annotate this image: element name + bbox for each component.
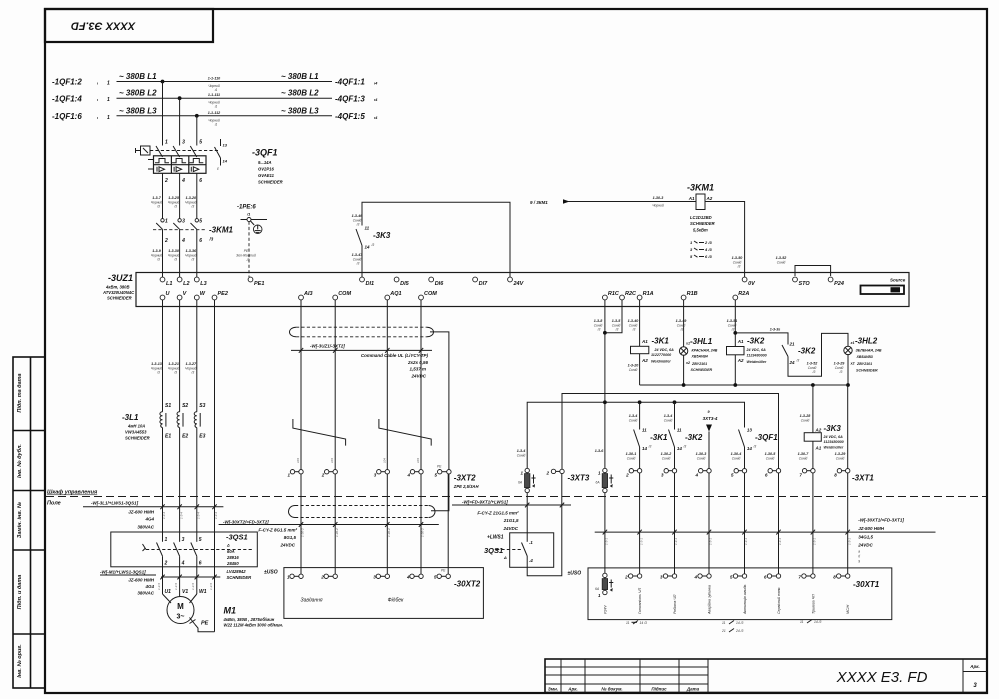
- wire 24V control rail: [362, 202, 510, 277]
- svg-text:-4QF1:5: -4QF1:5: [335, 112, 365, 121]
- frequency drive 3UZ1 enclosure: [102, 273, 909, 307]
- svg-text:28450: 28450: [226, 561, 239, 566]
- svg-text:A2: A2: [737, 358, 744, 363]
- 30XT1 terminal 6 function label: [777, 587, 781, 614]
- svg-text:1-3-1: 1-3-1: [709, 538, 713, 545]
- svg-text:б: б: [858, 555, 860, 559]
- svg-text:/3: /3: [615, 327, 619, 331]
- svg-text:6: 6: [199, 238, 202, 244]
- wire 3HL2 to rail: [847, 355, 849, 385]
- wire 3K1 coil A2 to rail: [628, 354, 640, 385]
- svg-text:1-3-1: 1-3-1: [813, 538, 817, 545]
- wires AI3 COM AQ1 COM: [301, 300, 421, 469]
- motor PE lead: [190, 618, 215, 632]
- reference arrow 9 / 3KM1: [530, 199, 570, 205]
- drive terminal R2A: [733, 291, 749, 300]
- svg-text:Синій: Синій: [799, 456, 808, 460]
- svg-text:A2: A2: [706, 196, 713, 201]
- svg-text:3: 3: [182, 219, 185, 225]
- label -3XT3: [568, 474, 590, 483]
- svg-text:SCHNEIDER: SCHNEIDER: [691, 368, 713, 372]
- svg-text:1123480000: 1123480000: [747, 354, 768, 358]
- svg-text:1-3-1: 1-3-1: [605, 538, 609, 545]
- svg-text:14: 14: [223, 159, 228, 164]
- svg-text:/3: /3: [173, 371, 177, 375]
- terminal 3XT1-3: [661, 469, 677, 478]
- svg-text:Шкаф управления: Шкаф управления: [47, 489, 98, 496]
- drive terminal DI6: [429, 277, 444, 287]
- wire L3 drop to breaker: [196, 116, 198, 146]
- contactor 3KM1 main poles: [156, 219, 202, 245]
- terminal box -30XT1: [568, 568, 892, 620]
- svg-text:1-3-3г: 1-3-3г: [770, 328, 781, 332]
- svg-text:SCHNEIDER: SCHNEIDER: [125, 436, 150, 441]
- svg-text:DI5: DI5: [400, 281, 410, 287]
- wire 3KM1 coil A2 to 0V: [705, 202, 745, 278]
- svg-text:34G1,5: 34G1,5: [858, 535, 873, 540]
- wire rail to 3K3 coil: [800, 385, 813, 433]
- wire labels 1-3-13 / 1-3-21 / 1-3-27: [151, 362, 197, 375]
- svg-text:S2: S2: [182, 403, 188, 409]
- svg-text:11: 11: [677, 428, 682, 433]
- shielded pair screen (capsule) top: [290, 327, 434, 337]
- motor M1: [167, 597, 194, 624]
- svg-text:XB5AVB4: XB5AVB4: [691, 355, 708, 359]
- svg-text:M: M: [177, 602, 184, 611]
- terminal 3XT3-2: [546, 469, 565, 475]
- svg-text:Активація швидк.: Активація швидк.: [743, 584, 747, 615]
- svg-text:-3KM1: -3KM1: [687, 183, 714, 193]
- svg-text:R1B: R1B: [687, 291, 698, 297]
- svg-text:24 VDC, 6А: 24 VDC, 6А: [823, 435, 844, 439]
- svg-text:Синій: Синій: [662, 456, 671, 460]
- svg-text:/3: /3: [246, 258, 250, 262]
- svg-text:Дата: Дата: [686, 687, 700, 692]
- node +24 rail at 3K1: [638, 400, 642, 404]
- drive terminal DI5: [394, 277, 409, 287]
- svg-text:1-3-5: 1-3-5: [191, 583, 195, 590]
- svg-text:1-30-2: 1-30-2: [335, 528, 339, 537]
- svg-text:-W[-3L1/+LWS1-3QS1]: -W[-3L1/+LWS1-3QS1]: [91, 501, 139, 506]
- drive terminal L2: [177, 277, 189, 287]
- svg-text:2x2x 0,56: 2x2x 0,56: [407, 360, 429, 365]
- svg-text:/3: /3: [190, 205, 194, 209]
- svg-text:24VDC: 24VDC: [502, 526, 518, 531]
- svg-text:-3K3: -3K3: [824, 424, 842, 433]
- wires 3XT2 to 30XT2: [301, 474, 421, 574]
- wires 3QF1 to 3KM1: [163, 174, 197, 221]
- svg-text:14 /3: 14 /3: [640, 621, 647, 625]
- svg-text:24VDC: 24VDC: [857, 543, 873, 548]
- breaker 3QF1 mechanical linkage (dashed): [150, 150, 218, 152]
- svg-text:9...14A: 9...14A: [258, 160, 272, 165]
- svg-text:-3QF1: -3QF1: [755, 433, 778, 442]
- svg-text:Тривога ЧП: Тривога ЧП: [811, 594, 815, 614]
- svg-text:Синій: Синій: [629, 368, 638, 372]
- svg-text:/3: /3: [190, 371, 194, 375]
- svg-text:1-3-1: 1-3-1: [639, 538, 643, 545]
- twisted pair symbol pair 2: [379, 419, 431, 446]
- svg-text:5: 5: [199, 140, 202, 146]
- aux switch box +LWS1 3QS1: [484, 533, 554, 568]
- svg-text:24 VDC, 6А: 24 VDC, 6А: [746, 348, 767, 352]
- 30XT1 terminal 2 function label: [638, 588, 642, 614]
- wire R2C jumper to R1C: [606, 300, 622, 333]
- indicator lamp 3HL2: [844, 337, 882, 373]
- svg-text:AI3: AI3: [303, 291, 313, 297]
- svg-text:21: 21: [789, 342, 796, 347]
- 30XT1 terminal 7 function label: [811, 594, 815, 614]
- relay coil 3K1: [631, 337, 675, 364]
- svg-text:/3: /3: [648, 445, 652, 449]
- svg-text:JZ-600 HMH: JZ-600 HMH: [128, 510, 155, 515]
- svg-text:3: 3: [182, 140, 185, 146]
- svg-text:.4: .4: [529, 558, 533, 563]
- svg-text:GVAE11: GVAE11: [258, 173, 275, 178]
- svg-text:W1: W1: [199, 589, 207, 595]
- svg-text:S1: S1: [165, 403, 171, 409]
- svg-text:/3: /3: [156, 205, 160, 209]
- svg-text:1-3-4: 1-3-4: [197, 512, 201, 519]
- screen capsule bottom: [289, 506, 436, 518]
- svg-text:11: 11: [800, 620, 804, 624]
- svg-text:/3: /3: [731, 327, 735, 331]
- wire LWS1 switch loop to 3XT3-2: [527, 474, 562, 576]
- svg-text:A1: A1: [688, 196, 695, 201]
- svg-text:-3QS1: -3QS1: [226, 533, 248, 542]
- svg-text:4: 4: [695, 473, 699, 478]
- terminal 30XT1-3: [660, 574, 677, 580]
- svg-text:E2: E2: [182, 434, 188, 440]
- svg-text:XXXX Э3.FD: XXXX Э3.FD: [71, 20, 136, 32]
- svg-text:104: 104: [330, 458, 334, 463]
- svg-text:2: 2: [546, 471, 550, 476]
- svg-text:4 /3: 4 /3: [704, 247, 712, 252]
- svg-text:21G1,5: 21G1,5: [503, 518, 519, 523]
- svg-text:1: 1: [165, 219, 168, 225]
- svg-text:2: 2: [164, 561, 168, 567]
- terminal 3XT1-8: [834, 469, 850, 478]
- earth terminal -1PE:6: [237, 205, 267, 234]
- label -3KM1: [209, 226, 234, 242]
- svg-text:Завдання: Завдання: [301, 598, 323, 604]
- svg-text:x2: x2: [850, 362, 855, 366]
- switch 3QS1 handle and linkage: [143, 544, 253, 551]
- svg-text:-4QF1:1: -4QF1:1: [335, 78, 365, 87]
- svg-text:ι1: ι1: [215, 88, 218, 92]
- svg-text:14 /3: 14 /3: [814, 620, 821, 624]
- svg-text:AQ1: AQ1: [389, 291, 401, 297]
- svg-text:1-1-112: 1-1-112: [208, 111, 221, 115]
- svg-text:24 VDC, 6А: 24 VDC, 6А: [654, 348, 675, 352]
- svg-text:Фідбек: Фідбек: [388, 598, 404, 604]
- contactor coil 3KM1 A1-A2: [687, 183, 715, 233]
- svg-text:-3K2: -3K2: [798, 347, 816, 356]
- svg-text:1-3-1: 1-3-1: [674, 538, 678, 545]
- terminal 3XT1-7: [799, 469, 815, 478]
- wires 3QS1 to motor: [163, 567, 207, 603]
- svg-text:-1QF1:4: -1QF1:4: [52, 94, 82, 103]
- drive terminal U: [160, 291, 170, 300]
- svg-text:Інв. № дубл.: Інв. № дубл.: [16, 444, 23, 478]
- svg-text:SCHNEIDER: SCHNEIDER: [856, 368, 878, 372]
- svg-text:-1QF1:6: -1QF1:6: [52, 112, 82, 121]
- node rail-HL1: [682, 383, 686, 387]
- contact 3K3 11-14: [352, 214, 375, 250]
- svg-text:Змн.: Змн.: [548, 687, 558, 692]
- svg-text:.1: .1: [529, 540, 533, 545]
- svg-text:1-1-111: 1-1-111: [208, 93, 220, 97]
- svg-text:/3: /3: [753, 445, 757, 449]
- svg-text:STO: STO: [799, 281, 811, 287]
- svg-text:28916: 28916: [226, 555, 239, 560]
- terminal 30XT1-2: [624, 574, 642, 580]
- svg-text:U1: U1: [165, 589, 172, 595]
- screen drain from 3XT2 PE (bottom): [431, 474, 449, 511]
- svg-text:W: W: [200, 291, 206, 297]
- svg-text:Weidmüller: Weidmüller: [824, 445, 844, 449]
- svg-text:/3: /3: [156, 258, 160, 262]
- svg-text:Синій: Синій: [766, 456, 775, 460]
- svg-text:1-3-4: 1-3-4: [162, 512, 166, 519]
- wire jumper STO-P24: [776, 256, 831, 276]
- svg-text:x1: x1: [850, 341, 855, 345]
- svg-text:а: а: [858, 550, 860, 554]
- svg-text:Weidmüller: Weidmüller: [747, 360, 767, 364]
- svg-text:SCHNEIDER: SCHNEIDER: [227, 575, 252, 580]
- svg-text:E1: E1: [165, 434, 171, 440]
- 30XT1 terminal 5 function label: [743, 584, 747, 615]
- svg-text:Арк.: Арк.: [969, 664, 980, 669]
- svg-text:5,5кВт: 5,5кВт: [693, 228, 708, 233]
- drive terminal R2C: [620, 291, 637, 300]
- svg-text:/3: /3: [680, 327, 684, 331]
- svg-text:-W[-M1/+LWS1-3QS1]: -W[-M1/+LWS1-3QS1]: [100, 570, 146, 575]
- svg-text:JZ-600 HMH: JZ-600 HMH: [128, 578, 155, 583]
- svg-text:1122770000: 1122770000: [651, 353, 672, 357]
- svg-text:380VAC: 380VAC: [137, 525, 154, 530]
- svg-text:-3HL1: -3HL1: [690, 337, 713, 346]
- wire 3QF1 contact to 3XT1-5: [731, 447, 745, 469]
- svg-text:11: 11: [642, 428, 647, 433]
- svg-text:-3KM1: -3KM1: [209, 226, 234, 235]
- svg-text:Підпис: Підпис: [651, 687, 667, 692]
- svg-text:1-1-110: 1-1-110: [208, 77, 221, 81]
- svg-text:Синій: Синій: [777, 260, 786, 264]
- svg-text:/3: /3: [156, 371, 160, 375]
- wires U V W below drive: [163, 300, 197, 406]
- svg-text:W22 112M 4кВт 3000 об/мин.: W22 112M 4кВт 3000 об/мин.: [224, 623, 284, 628]
- svg-text:3XT3-4: 3XT3-4: [703, 416, 718, 421]
- wire arrow to 3XT1-4: [696, 432, 709, 469]
- cable W[-30XT1/=FD-3XT1]: [595, 518, 936, 564]
- svg-text:Поле: Поле: [47, 501, 61, 507]
- svg-text:Синій: Синій: [836, 456, 845, 460]
- cable W[-30XT2/=FD-3XT2]: [219, 519, 439, 547]
- terminal 3XT3-1 with fuse: [517, 449, 536, 493]
- wire 3XT3-1 to LWS1 switch: [526, 493, 528, 533]
- svg-text:PE: PE: [201, 621, 209, 627]
- svg-text:JZ-500 HMH: JZ-500 HMH: [858, 526, 885, 531]
- svg-text:11: 11: [626, 621, 630, 625]
- node +24 rail at 3K2: [673, 400, 677, 404]
- drive terminal DI7: [473, 277, 488, 287]
- svg-text:/3: /3: [173, 205, 177, 209]
- wire labels 1-3-9 / 1-3-30 / 1-3-36: [151, 249, 197, 262]
- svg-text:2 /3: 2 /3: [704, 240, 712, 245]
- indicator lamp 3HL1: [679, 337, 717, 372]
- wire 3K3 coil to 3XT1-7: [798, 441, 813, 468]
- svg-text:1-3-6: 1-3-6: [595, 449, 605, 453]
- svg-text:2: 2: [624, 575, 628, 580]
- node rail-3K2: [733, 383, 737, 387]
- svg-text:SCHNEIDER: SCHNEIDER: [258, 180, 283, 185]
- svg-text:1-3-5: 1-3-5: [157, 583, 161, 590]
- svg-text:/3: /3: [356, 222, 360, 226]
- svg-text:Синій: Синій: [801, 418, 810, 422]
- wire 3K3 to DI1: [352, 246, 364, 278]
- svg-text:1-3-1: 1-3-1: [778, 538, 782, 545]
- node R1C-R2C junction: [603, 331, 607, 335]
- reference arrow 3XT3-4: [703, 410, 718, 432]
- sidebar label Підп. и дата: [17, 575, 23, 610]
- svg-text:F-CY-Z 21G1.5 mm²: F-CY-Z 21G1.5 mm²: [477, 510, 519, 515]
- svg-text:-3XT1: -3XT1: [852, 474, 874, 483]
- svg-text:/3: /3: [371, 243, 375, 247]
- svg-text:104: 104: [416, 458, 420, 463]
- drive terminal L1: [160, 277, 172, 287]
- svg-text:4: 4: [181, 178, 185, 184]
- wire 3HL2 to 3XT1-8: [835, 385, 848, 469]
- svg-text:x2: x2: [685, 361, 690, 365]
- cable W[-3L1/+LWS1-3QS1]: [83, 501, 223, 530]
- svg-text:24: 24: [789, 360, 796, 365]
- svg-text:1: 1: [107, 97, 110, 103]
- drive terminal PE1: [248, 277, 264, 287]
- wire R1A to 3K1 coil: [639, 300, 641, 346]
- svg-text:1: 1: [107, 81, 110, 87]
- svg-text:-30XT2: -30XT2: [454, 580, 481, 589]
- title block sheet number box Арк 3: [963, 664, 987, 689]
- svg-text:XB5AVB3: XB5AVB3: [856, 355, 873, 359]
- svg-text:380VAC: 380VAC: [137, 591, 154, 596]
- label M1: [223, 606, 284, 628]
- svg-text:104: 104: [296, 458, 300, 463]
- terminal 3XT1-4: [695, 469, 712, 478]
- svg-text:2: 2: [625, 473, 629, 478]
- drive terminal V: [177, 291, 187, 300]
- wire R1C down: [604, 300, 606, 470]
- svg-text:Робота ЧП: Робота ЧП: [673, 594, 677, 614]
- svg-text:1-30-3: 1-30-3: [653, 196, 665, 200]
- svg-text:ATV320U40N4C: ATV320U40N4C: [102, 290, 135, 295]
- svg-text:6 /3: 6 /3: [705, 254, 712, 259]
- cable W[=FD-9XT1/+LWS1]: [452, 500, 571, 531]
- svg-text:Аварійна зупинка: Аварійна зупинка: [708, 585, 712, 615]
- svg-text:1: 1: [165, 140, 168, 146]
- svg-text:Δ: Δ: [226, 543, 230, 548]
- svg-text:-1QF1:2: -1QF1:2: [52, 78, 82, 87]
- switch 3QS1 poles: [157, 532, 202, 567]
- node L3 junction: [195, 114, 199, 118]
- field contact cross-ref below 30XT1 (middle): [721, 621, 743, 634]
- svg-text:6: 6: [199, 178, 202, 184]
- svg-text:5: 5: [199, 537, 202, 543]
- svg-text:~ 380В L3: ~ 380В L3: [281, 106, 319, 115]
- svg-text:4: 4: [181, 238, 185, 244]
- wire L1 drop to breaker: [162, 82, 164, 146]
- svg-text:ZPE 2,5/3АН: ZPE 2,5/3АН: [453, 484, 480, 489]
- svg-text:1: 1: [165, 537, 168, 543]
- svg-text:Р24V: Р24V: [603, 605, 607, 614]
- terminal 30XT1-6: [764, 574, 781, 580]
- circuit breaker 3QF1 poles: [156, 140, 202, 185]
- svg-text:~ 380В L1: ~ 380В L1: [119, 72, 157, 81]
- svg-text:-3XT3: -3XT3: [568, 474, 590, 483]
- terminal 3XT1-2: [625, 469, 642, 478]
- svg-text:COM: COM: [338, 291, 351, 297]
- line choke 3L1: [122, 403, 206, 441]
- svg-text:-3K3: -3K3: [373, 231, 391, 240]
- svg-text:-3L1: -3L1: [122, 413, 139, 422]
- svg-text:-3K1: -3K1: [652, 337, 670, 346]
- svg-text:3QS1: 3QS1: [484, 546, 503, 555]
- svg-text:/3: /3: [209, 237, 214, 242]
- sidebar label Інв. № дубл.: [16, 444, 23, 478]
- load switch 3QS1 enclosure: [111, 532, 257, 567]
- field contact cross-ref below 30XT1 (left): [626, 621, 647, 626]
- svg-text:ZBY2101: ZBY2101: [856, 362, 872, 366]
- svg-text:-3XT2: -3XT2: [454, 474, 476, 483]
- wires 3L1 to 3QS1: [163, 428, 197, 532]
- svg-text:11: 11: [365, 226, 370, 231]
- svg-text:Синій: Синій: [629, 418, 638, 422]
- svg-text:6: 6: [199, 561, 202, 567]
- svg-text:4: 4: [407, 473, 411, 478]
- drive terminal L3: [194, 277, 206, 287]
- svg-text:V1: V1: [182, 589, 188, 595]
- svg-text:1: 1: [107, 115, 110, 121]
- label -3XT1: [852, 474, 874, 483]
- labels LV428942 SCHNEIDER: [227, 569, 252, 580]
- terminal 3XT1-6: [765, 469, 781, 478]
- svg-text:ЗЕЛЕНАЯ, 24В: ЗЕЛЕНАЯ, 24В: [856, 348, 882, 352]
- svg-text:24V: 24V: [513, 281, 525, 287]
- svg-text:1-3-4: 1-3-4: [179, 512, 183, 519]
- svg-text:XXXX Е3. FD: XXXX Е3. FD: [836, 669, 928, 686]
- wire 3XT2 PE to 30XT2 terminal 5: [447, 474, 449, 574]
- svg-text:SCHNEIDER: SCHNEIDER: [107, 296, 132, 301]
- cable W[-3UZ1/-3XT2] command cable: [291, 344, 432, 379]
- svg-text:L2: L2: [183, 281, 189, 287]
- svg-text:A1: A1: [815, 446, 822, 451]
- wire contact 3K2 to lamp 3HL2 (routed): [788, 333, 848, 376]
- drive terminal PE2: [212, 291, 228, 300]
- wire labels 1-3-7 / 1-3-25 / 1-3-20: [151, 196, 197, 209]
- svg-text:1123480000: 1123480000: [824, 440, 845, 444]
- wire to 3KM1 coil A1: [568, 196, 696, 208]
- wire 3K2 contact to 3XT1-3: [661, 447, 675, 469]
- svg-text:Δ: Δ: [503, 555, 507, 560]
- svg-text:Арк.: Арк.: [567, 687, 578, 692]
- wire PE (dashed) to drive PE1: [236, 222, 256, 278]
- terminal 3XT1-5: [731, 469, 747, 478]
- wire 3K1 contact branch: [629, 402, 640, 429]
- terminal 30XT1-5: [730, 574, 747, 580]
- svg-text:SCHNEIDER: SCHNEIDER: [690, 221, 715, 226]
- svg-text:M1: M1: [224, 606, 237, 616]
- svg-text:3~: 3~: [177, 614, 185, 621]
